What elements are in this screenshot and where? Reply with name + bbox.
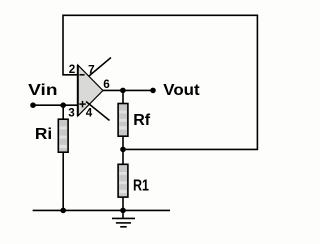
- wire ground rail: [33, 209, 170, 211]
- node junction Ri/ground rail: [60, 208, 66, 214]
- resistor Ri: [58, 119, 68, 152]
- wire feedback loop from pin2 up over to bottom junction: [63, 15, 257, 149]
- wire Ri branch vertical: [62, 105, 64, 210]
- resistor R1: [118, 164, 128, 197]
- svg-text:R1: R1: [133, 177, 149, 194]
- svg-text:4: 4: [86, 107, 93, 120]
- pin 4 power line: [86, 102, 110, 121]
- svg-text:6: 6: [103, 78, 110, 91]
- wire output pin6 to Vout: [103, 89, 154, 91]
- ground: [112, 210, 135, 226]
- svg-text:Vin: Vin: [28, 82, 57, 99]
- node junction R1/ground rail: [120, 208, 126, 214]
- pin 7 power line: [89, 58, 111, 77]
- node junction output/Rf: [120, 88, 126, 94]
- wire Rf / R1 vertical branch: [122, 90, 124, 210]
- wire Vin input to pin 3: [33, 104, 79, 106]
- node junction Ri/input: [60, 102, 66, 108]
- svg-text:Vout: Vout: [163, 82, 200, 99]
- svg-text:2: 2: [69, 63, 76, 76]
- svg-text:Ri: Ri: [35, 126, 52, 143]
- op-amp U1 triangle: [78, 65, 103, 116]
- node Vin terminal: [30, 102, 36, 108]
- svg-text:Rf: Rf: [133, 112, 151, 129]
- node junction Rf/R1/feedback: [120, 147, 126, 153]
- op-amp minus mark (inverting input): [79, 74, 84, 76]
- svg-text:7: 7: [88, 64, 95, 77]
- node Vout terminal: [150, 88, 156, 94]
- svg-text:3: 3: [68, 107, 75, 120]
- resistor Rf: [118, 104, 128, 137]
- op-amp plus mark (non-inverting input): [79, 103, 86, 105]
